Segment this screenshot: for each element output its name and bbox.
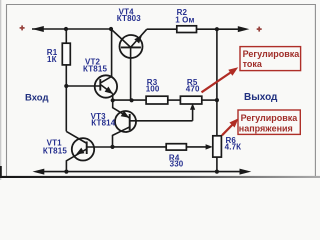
svg-text:КТ815: КТ815: [43, 147, 67, 156]
svg-text:1К: 1К: [47, 55, 57, 64]
svg-text:КТ803: КТ803: [117, 14, 141, 23]
svg-text:Регулировка: Регулировка: [243, 49, 301, 59]
svg-text:1 Ом: 1 Ом: [175, 16, 194, 25]
svg-text:330: 330: [170, 160, 184, 169]
svg-text:Вход: Вход: [25, 92, 49, 103]
svg-text:Выход: Выход: [244, 92, 278, 103]
svg-text:100: 100: [146, 84, 160, 93]
svg-text:4.7К: 4.7К: [225, 142, 242, 151]
svg-text:тока: тока: [243, 59, 263, 69]
svg-text:Регулировка: Регулировка: [241, 113, 299, 123]
svg-text:КТ815: КТ815: [83, 65, 107, 74]
svg-text:470: 470: [186, 84, 200, 93]
svg-text:напряжения: напряжения: [239, 124, 293, 134]
svg-text:КТ814: КТ814: [91, 119, 115, 128]
